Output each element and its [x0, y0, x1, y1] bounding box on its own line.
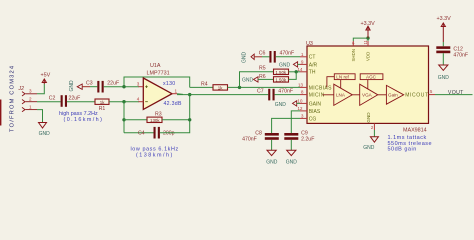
svg-text:1k: 1k [218, 86, 223, 91]
ground GND (U3) [370, 137, 378, 142]
U3 left pin names [309, 55, 332, 123]
wire SHDN/VDD to +3.3V [353, 38, 368, 41]
resistor R3 [147, 117, 162, 122]
svg-text:470nF: 470nF [453, 53, 468, 59]
svg-text:22uF: 22uF [69, 96, 81, 102]
wire R1 to op-amp pin4 [109, 101, 139, 103]
wire J2 pin3 to +5V [37, 84, 44, 94]
svg-text:C2: C2 [49, 96, 56, 102]
U3 bottom pin GND [373, 123, 375, 130]
U3 internal AGC box [360, 74, 383, 80]
svg-text:C6: C6 [259, 50, 266, 56]
wire +3.3V to C12 [442, 42, 444, 46]
svg-text:VGA: VGA [362, 93, 373, 98]
wire feedback top loop [124, 77, 190, 87]
power +3.3V (U3) [366, 26, 370, 38]
wire R5 to TH [289, 71, 301, 73]
svg-text:BIAS: BIAS [309, 109, 321, 115]
svg-text:1.50k: 1.50k [275, 78, 287, 83]
U3 internal wires [323, 77, 387, 95]
wire R3 left [124, 119, 147, 121]
capacitor C6 [269, 51, 275, 63]
svg-text:C12: C12 [453, 46, 463, 52]
wire R3 right [162, 119, 190, 121]
wire C6 to CT [276, 56, 300, 58]
U3 internal Gain amp [386, 85, 403, 104]
svg-text:LN ref: LN ref [336, 75, 349, 80]
capacitor C12 [436, 46, 450, 53]
svg-text:13: 13 [298, 82, 303, 87]
svg-text:C7: C7 [257, 89, 264, 95]
node junction R3 right [188, 118, 191, 121]
capacitor C4 [154, 127, 160, 139]
svg-text:10: 10 [298, 98, 303, 103]
svg-text:U3: U3 [306, 41, 313, 47]
wire R4 line [190, 86, 213, 88]
wire op-amp output to C7 [177, 94, 268, 96]
svg-text:GAIN: GAIN [309, 101, 322, 107]
resistor R1 [95, 99, 109, 104]
wire C4 left [124, 132, 154, 134]
node junction pin4 [122, 100, 125, 103]
IC U3 MAX9814 [307, 46, 429, 123]
capacitor C2 [61, 95, 67, 107]
svg-text:GND: GND [242, 52, 248, 64]
svg-text:470nF: 470nF [280, 51, 295, 57]
wire R5 riser [240, 72, 274, 88]
wire GND flag to C3 [82, 86, 90, 88]
wire feedback left riser [123, 102, 125, 133]
U3 right pin MICOUT [429, 94, 436, 96]
node junction TH [295, 70, 298, 73]
wire R6 left [258, 78, 274, 80]
wire C9 to gnd [290, 140, 292, 151]
svg-text:+3.3V: +3.3V [361, 21, 376, 27]
wire C8 to gnd [271, 140, 273, 151]
svg-text:GND: GND [366, 112, 371, 123]
svg-text:J2: J2 [18, 86, 25, 92]
wire R4 to MICBIAS [228, 86, 301, 88]
U3 left pin stubs [300, 57, 307, 119]
svg-text:130k: 130k [150, 118, 160, 123]
svg-text:GND: GND [266, 159, 278, 165]
U3 internal VGA amp [360, 84, 378, 105]
svg-text:1: 1 [29, 104, 32, 109]
svg-text:A/R: A/R [309, 62, 318, 68]
svg-text:1: 1 [175, 88, 178, 93]
wire U3 gnd [373, 130, 375, 137]
svg-text:R6: R6 [259, 74, 266, 80]
wire J2 pin1 to GND [37, 110, 43, 123]
svg-text:2.2uF: 2.2uF [301, 136, 314, 142]
wire CG to C8 [272, 118, 300, 133]
svg-text:(0.16km/h): (0.16km/h) [64, 117, 104, 123]
sheet edge fragment [0, 100, 1, 126]
svg-text:MICBIAS: MICBIAS [309, 85, 332, 91]
wire C12 to gnd [442, 53, 444, 65]
svg-text:MICOUT: MICOUT [405, 93, 428, 99]
connector J2 [22, 92, 37, 112]
wire C3 to op-amp pin3 [104, 86, 139, 88]
svg-text:VDD: VDD [366, 52, 371, 61]
svg-text:MICIN: MICIN [309, 93, 325, 99]
svg-text:470nF: 470nF [242, 136, 257, 142]
svg-text:R3: R3 [155, 111, 162, 117]
capacitor C7 [268, 89, 274, 101]
svg-text:3: 3 [137, 81, 140, 86]
wire C2 to R1 [67, 101, 95, 103]
power +3.3V (C12) [441, 23, 445, 42]
svg-text:GND: GND [286, 159, 298, 165]
svg-text:GND: GND [279, 63, 291, 69]
resistor R4 [213, 85, 228, 90]
node junction output [188, 93, 191, 96]
svg-text:C8: C8 [255, 130, 262, 136]
node junction R4/R5 [238, 86, 241, 89]
wire MICOUT to VOUT [435, 94, 473, 96]
svg-text:C4: C4 [138, 131, 145, 137]
capacitor C8 [265, 133, 279, 140]
svg-text:+5V: +5V [41, 73, 51, 79]
svg-text:42.3dB: 42.3dB [164, 101, 182, 107]
svg-text:1.50k: 1.50k [275, 70, 287, 75]
svg-text:2: 2 [29, 97, 32, 102]
svg-text:LNA: LNA [336, 93, 346, 98]
svg-text:LMP7731: LMP7731 [147, 71, 170, 77]
svg-text:R5: R5 [259, 66, 266, 72]
wire J2 pin2 to C2 [37, 101, 61, 103]
op-amp U1A [143, 78, 172, 109]
resistor R6 [274, 77, 289, 82]
svg-text:(138km/h): (138km/h) [136, 153, 174, 159]
wire C4 right + feedback right riser [160, 95, 190, 133]
ground GND (C8) [267, 150, 276, 155]
resistor R5 [274, 69, 289, 74]
svg-text:22uF: 22uF [107, 80, 119, 86]
wire GND to C6 [254, 56, 262, 58]
svg-text:12: 12 [298, 106, 303, 111]
svg-text:GND: GND [242, 77, 254, 83]
svg-text:TO/FROM COM324: TO/FROM COM324 [10, 65, 16, 132]
svg-text:SHDN: SHDN [351, 49, 356, 61]
svg-text:AGC: AGC [366, 75, 377, 80]
svg-text:VOUT: VOUT [448, 90, 464, 96]
wire C7 to MICIN [275, 94, 300, 96]
svg-text:CG: CG [309, 116, 317, 122]
svg-text:R4: R4 [201, 82, 208, 88]
svg-text:+3.3V: +3.3V [437, 16, 452, 22]
svg-text:CT: CT [309, 55, 316, 61]
svg-text:1k: 1k [100, 100, 105, 105]
svg-text:R1: R1 [99, 106, 106, 112]
svg-text:TH: TH [309, 70, 316, 76]
svg-text:C9: C9 [301, 130, 308, 136]
ground GND (C9) [287, 150, 296, 155]
svg-text:x130: x130 [163, 81, 175, 87]
svg-text:GND: GND [275, 102, 287, 108]
ground GND (C12) [439, 65, 448, 70]
capacitor C9 [284, 133, 298, 140]
U3 left pin numbers [298, 52, 305, 119]
svg-text:GND: GND [438, 75, 450, 81]
U3 top pins SHDN/VDD [352, 41, 354, 46]
node junction pin3 [122, 85, 125, 88]
svg-text:GND: GND [69, 80, 75, 92]
svg-text:11: 11 [363, 39, 368, 44]
svg-text:MAX9814: MAX9814 [403, 127, 427, 133]
svg-text:Gain: Gain [388, 93, 398, 98]
svg-text:3: 3 [29, 89, 32, 94]
svg-text:14: 14 [298, 67, 303, 72]
svg-text:GND: GND [39, 131, 51, 137]
svg-text:470nF: 470nF [278, 89, 293, 95]
capacitor C3 [97, 81, 103, 93]
svg-text:4: 4 [137, 96, 140, 101]
U3 internal LN ref box [334, 74, 355, 80]
svg-text:200p: 200p [163, 131, 175, 137]
power +5V [42, 79, 46, 84]
node junction R3 left [122, 118, 125, 121]
U3 internal LNA amp [334, 84, 353, 105]
wire R6 right riser [289, 72, 297, 80]
svg-text:U1A: U1A [150, 63, 161, 69]
svg-text:C3: C3 [86, 81, 93, 87]
svg-text:50dB gain: 50dB gain [388, 147, 417, 153]
wire BIAS to C9 [291, 111, 300, 133]
ground GND (J2) [39, 123, 47, 129]
svg-text:GND: GND [363, 145, 375, 151]
